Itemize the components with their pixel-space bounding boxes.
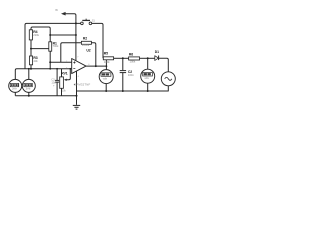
svg-text:R5: R5 bbox=[104, 52, 108, 56]
svg-text:4: 4 bbox=[78, 76, 80, 78]
svg-text:RV1: RV1 bbox=[61, 71, 67, 75]
svg-text:2200k: 2200k bbox=[82, 43, 90, 47]
svg-text:R2: R2 bbox=[83, 37, 87, 41]
svg-text:2PM32TNF: 2PM32TNF bbox=[75, 83, 91, 87]
svg-text:U2: U2 bbox=[86, 48, 90, 52]
svg-text:9V: 9V bbox=[55, 9, 58, 12]
svg-text:100k: 100k bbox=[130, 60, 136, 64]
svg-text:7: 7 bbox=[77, 57, 79, 59]
svg-text:D1: D1 bbox=[155, 50, 159, 54]
svg-text:S1: S1 bbox=[92, 18, 96, 22]
svg-text:10k: 10k bbox=[62, 90, 66, 93]
svg-text:43k: 43k bbox=[33, 59, 38, 63]
svg-text:+: + bbox=[53, 85, 55, 88]
svg-text:220k: 220k bbox=[33, 33, 39, 37]
svg-text:100n: 100n bbox=[128, 73, 134, 77]
svg-text:100k: 100k bbox=[104, 60, 110, 64]
svg-text:700k: 700k bbox=[53, 44, 59, 48]
svg-text:R6: R6 bbox=[129, 52, 133, 56]
